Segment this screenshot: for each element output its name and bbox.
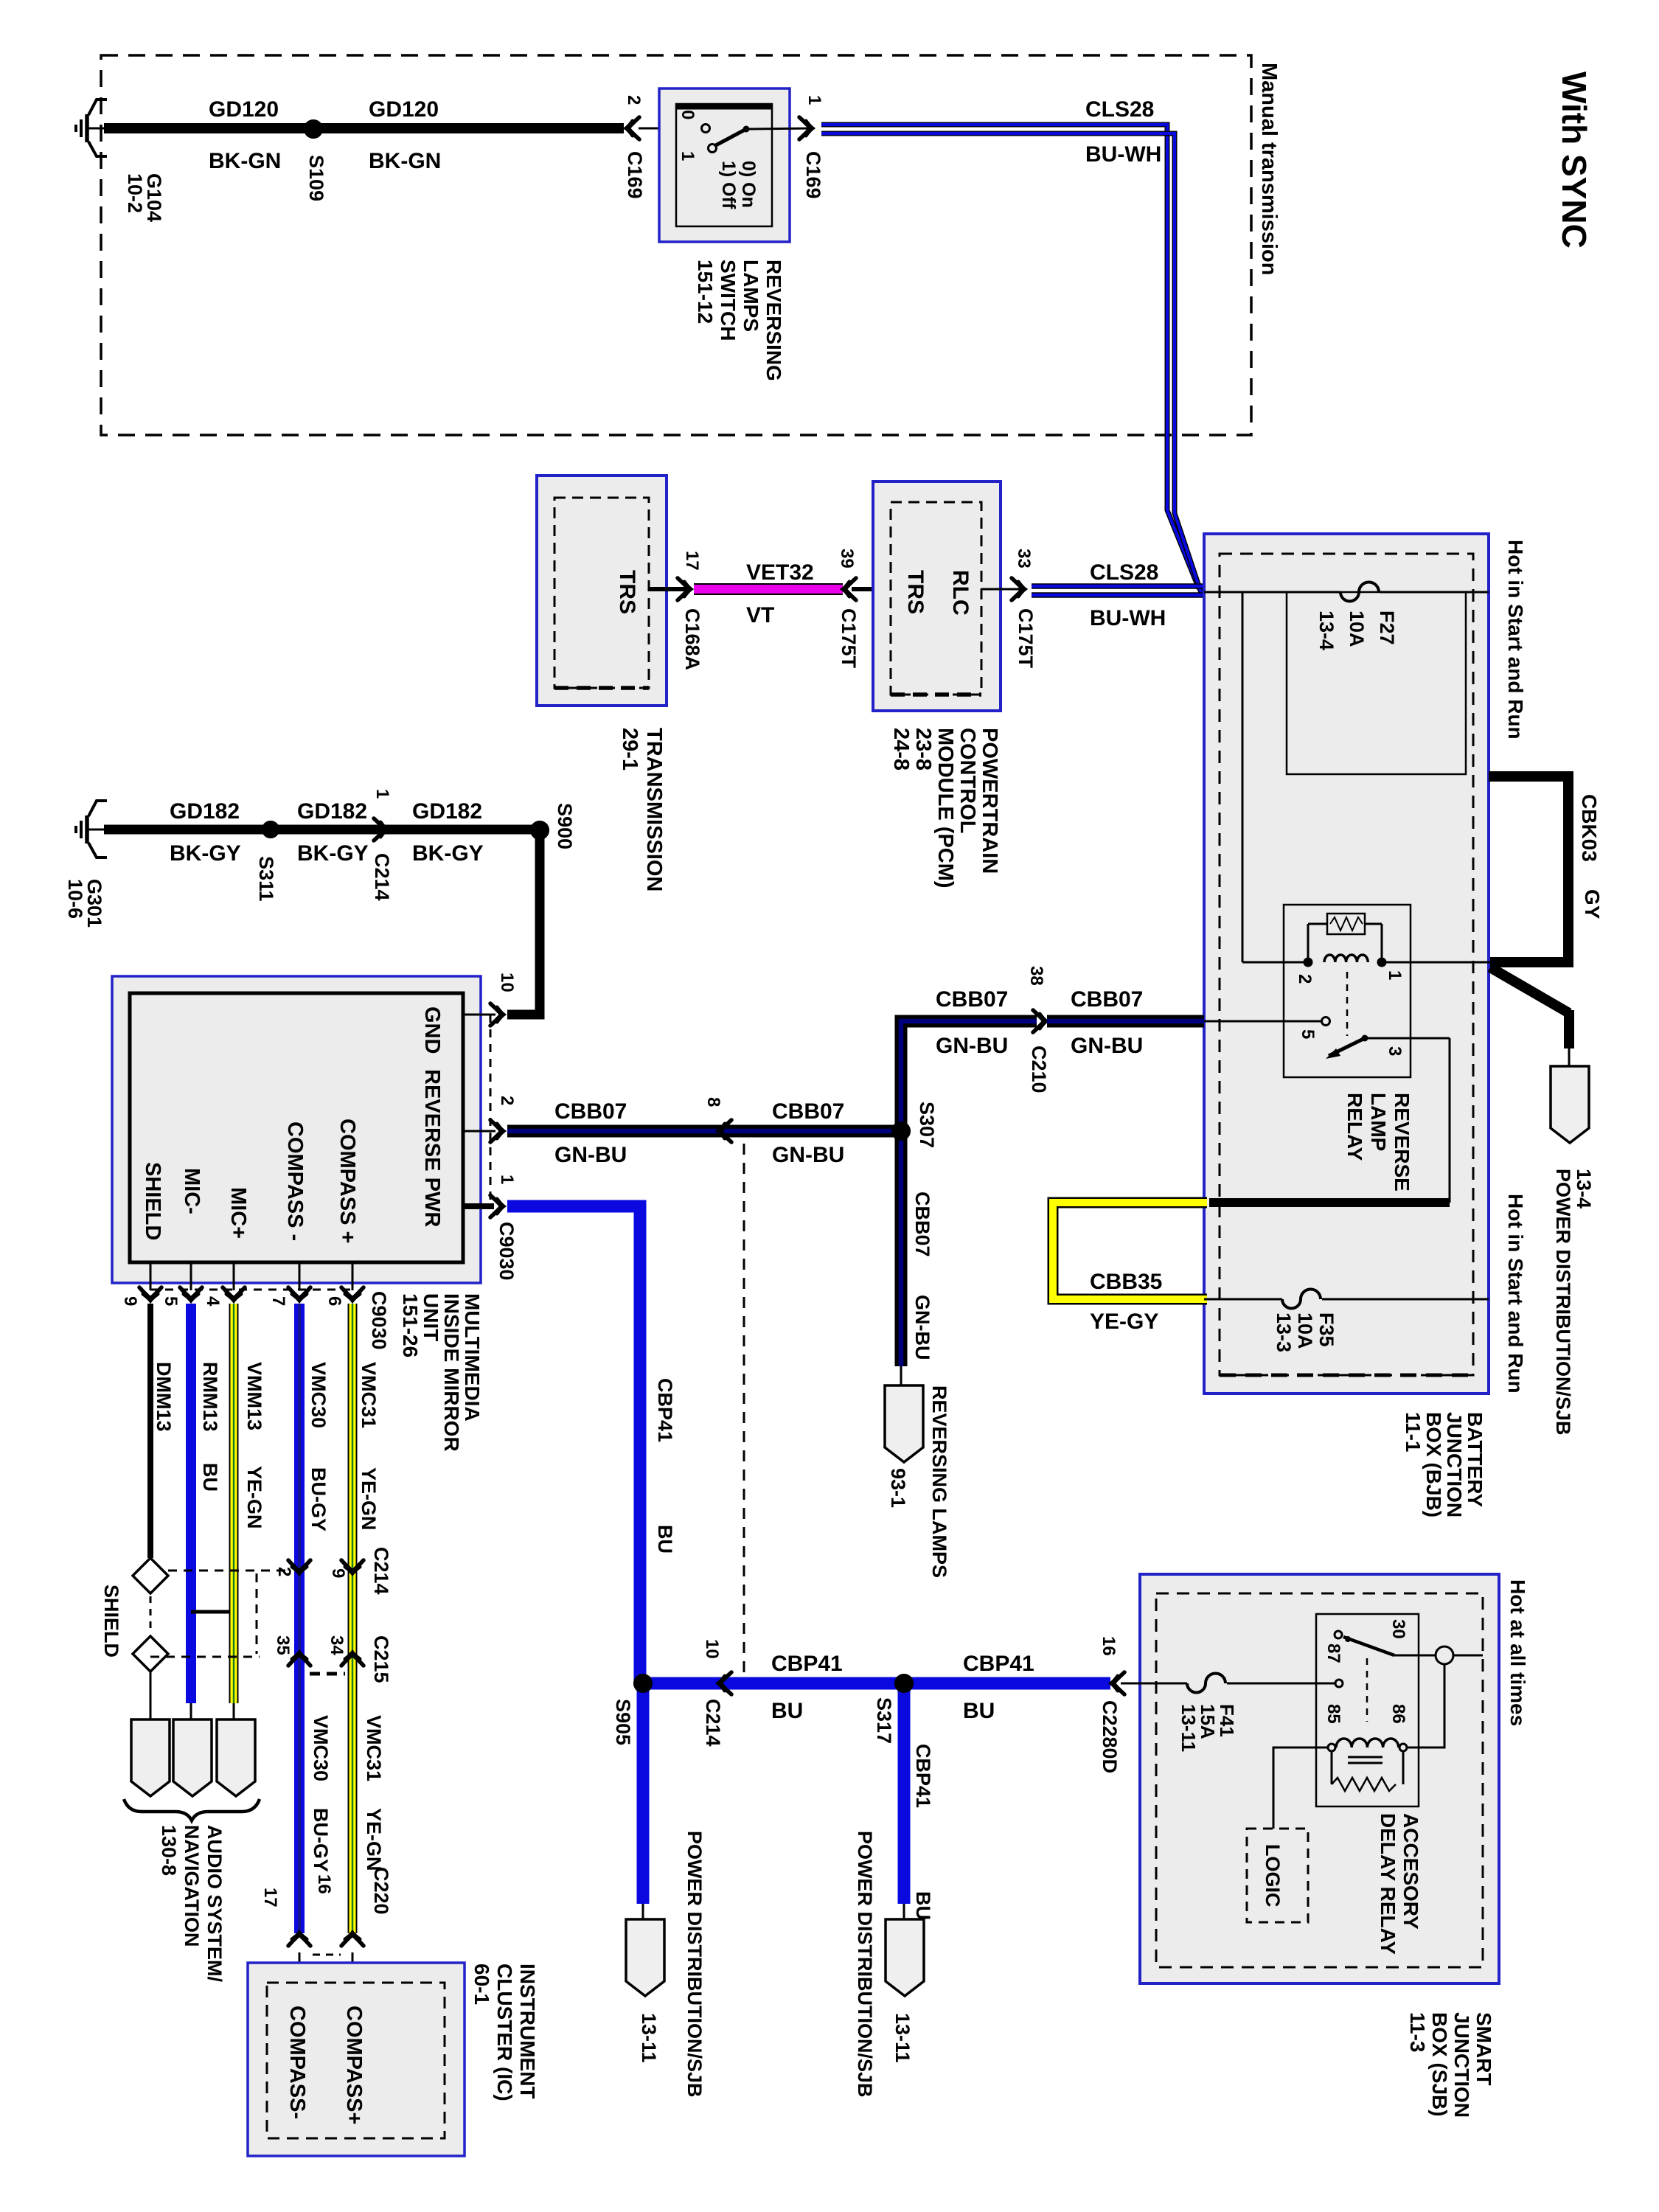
fuse F35 10A 13-3 xyxy=(1204,1298,1282,1301)
svg-text:CBB35: CBB35 xyxy=(1090,1270,1162,1294)
wire GD120 BK-GN xyxy=(104,123,624,133)
svg-text:COMPASS +: COMPASS + xyxy=(335,1119,359,1243)
dashed connector line C9030 bottom xyxy=(150,1289,352,1291)
pin 34 C215 xyxy=(341,1652,364,1666)
splice dot overlay S307 xyxy=(891,1121,911,1141)
relay actuator dashed (SJB) xyxy=(1366,1658,1368,1722)
reversing lamps switch box xyxy=(659,88,790,242)
svg-text:35: 35 xyxy=(273,1635,293,1655)
svg-text:CBB07: CBB07 xyxy=(554,1099,627,1124)
powertrain control module box xyxy=(873,481,1001,711)
wire into switch xyxy=(639,128,701,130)
wire TRS pin 17 xyxy=(649,587,686,591)
wire VET32 VT xyxy=(694,583,843,595)
wire VMC31 YE-GN (upper) xyxy=(348,1304,358,1933)
svg-text:S900: S900 xyxy=(554,803,576,849)
svg-text:BU-WH: BU-WH xyxy=(1085,142,1161,167)
dashed shield wire xyxy=(150,1596,152,1633)
twisted pair tie bar xyxy=(191,1610,234,1614)
svg-text:COMPASS+: COMPASS+ xyxy=(342,2006,366,2124)
svg-text:S307: S307 xyxy=(916,1102,938,1148)
splice dot overlay S317 xyxy=(894,1674,914,1693)
pin 1 C9030 xyxy=(463,1203,494,1209)
svg-text:VMC30: VMC30 xyxy=(307,1362,330,1428)
shield diamond 2 xyxy=(133,1636,168,1672)
svg-text:13-4: 13-4 xyxy=(1573,1169,1595,1208)
fuse F27 10A 13-4 xyxy=(1204,591,1340,594)
svg-text:10-6: 10-6 xyxy=(64,879,86,919)
wire pin3 to CBB35 xyxy=(1365,1037,1450,1040)
svg-text:10: 10 xyxy=(497,973,517,992)
switch contact 0 xyxy=(702,125,710,133)
splice S109 xyxy=(304,119,323,139)
svg-text:GD120: GD120 xyxy=(369,97,439,122)
wire shield to connector xyxy=(150,1672,152,1719)
pin 38 C210 xyxy=(1033,1010,1046,1032)
svg-text:38: 38 xyxy=(1026,966,1046,986)
svg-text:BOX (BJB): BOX (BJB) xyxy=(1422,1412,1445,1517)
svg-text:LAMPS: LAMPS xyxy=(740,260,762,332)
svg-text:0) On: 0) On xyxy=(738,161,759,208)
svg-text:13-11: 13-11 xyxy=(638,2013,660,2063)
svg-text:10: 10 xyxy=(702,1639,722,1659)
svg-text:C168A: C168A xyxy=(681,608,703,670)
wire ring to dashed edge xyxy=(1453,1655,1483,1657)
svg-text:BK-GN: BK-GN xyxy=(369,149,441,173)
svg-text:CBP41: CBP41 xyxy=(912,1744,934,1808)
svg-text:GY: GY xyxy=(1581,889,1604,919)
wire CBP41 BU (mirror pin1 down) xyxy=(507,1206,640,1683)
svg-text:GN-BU: GN-BU xyxy=(936,1034,1008,1058)
svg-text:85: 85 xyxy=(1324,1704,1343,1724)
svg-text:4: 4 xyxy=(203,1296,223,1307)
wire CBB07 S307 down to reversing lamps xyxy=(895,1131,908,1366)
svg-text:1: 1 xyxy=(1385,970,1405,980)
svg-text:9: 9 xyxy=(328,1568,348,1578)
manual transmission dashed box xyxy=(101,55,1251,435)
wire DMM13 shield xyxy=(147,1304,153,1558)
svg-text:BU: BU xyxy=(771,1699,803,1723)
pin 1 C214 xyxy=(374,818,387,841)
splice dot overlay S900 xyxy=(530,821,549,840)
reversing lamps arrow connector xyxy=(885,1385,923,1462)
instrument cluster box xyxy=(248,1963,465,2156)
relay coil xyxy=(1324,955,1368,962)
svg-text:GND: GND xyxy=(420,1006,444,1054)
svg-text:BK-GN: BK-GN xyxy=(209,149,281,173)
ground G104 xyxy=(85,114,89,142)
connector C214 row dashed xyxy=(168,1570,288,1572)
svg-text:BU: BU xyxy=(963,1699,995,1723)
reverse lamp relay outline xyxy=(1284,905,1411,1077)
svg-text:F27: F27 xyxy=(1376,611,1398,645)
svg-text:1: 1 xyxy=(678,151,698,161)
svg-text:2: 2 xyxy=(1295,974,1315,984)
svg-text:VMC31: VMC31 xyxy=(358,1362,380,1428)
svg-text:POWER DISTRIBUTION/SJB: POWER DISTRIBUTION/SJB xyxy=(854,1831,876,2098)
svg-text:C214: C214 xyxy=(371,853,393,901)
svg-text:86: 86 xyxy=(1388,1704,1408,1724)
wire CBB07 GN-BU (mirror pin2 to S307) xyxy=(507,1125,901,1138)
pin 17 C220 xyxy=(288,1933,310,1946)
svg-text:VMC30: VMC30 xyxy=(310,1715,332,1781)
svg-text:6: 6 xyxy=(324,1296,344,1306)
svg-text:GN-BU: GN-BU xyxy=(554,1143,627,1167)
svg-text:LAMP: LAMP xyxy=(1367,1093,1390,1151)
fuse cell rectangle xyxy=(1287,592,1466,774)
svg-text:YE-GN: YE-GN xyxy=(363,1808,385,1871)
svg-text:BU: BU xyxy=(912,1891,934,1920)
svg-text:BATTERY: BATTERY xyxy=(1464,1412,1486,1507)
svg-text:CBK03: CBK03 xyxy=(1578,794,1601,862)
pin 2 C169 xyxy=(626,117,639,139)
svg-text:VET32: VET32 xyxy=(746,560,814,585)
svg-text:VMC31: VMC31 xyxy=(363,1715,385,1781)
svg-text:MULTIMEDIA: MULTIMEDIA xyxy=(461,1293,484,1422)
svg-text:LOGIC: LOGIC xyxy=(1262,1844,1284,1907)
fuse F41 15A 13-11 xyxy=(1187,1674,1225,1693)
logic box xyxy=(1247,1829,1308,1922)
wire CBB07 C210 to BJB xyxy=(1047,1015,1204,1028)
svg-text:23-8: 23-8 xyxy=(911,728,935,771)
svg-text:7: 7 xyxy=(268,1296,288,1306)
svg-text:RELAY: RELAY xyxy=(1343,1093,1366,1161)
dashed connector line C214 long xyxy=(743,1144,745,1677)
svg-text:130-8: 130-8 xyxy=(158,1825,180,1876)
transmission box xyxy=(537,476,667,706)
svg-text:CBB07: CBB07 xyxy=(772,1099,844,1124)
wire lever to pin1 xyxy=(746,128,813,129)
wire pin30 to ring xyxy=(1394,1655,1436,1657)
svg-text:C169: C169 xyxy=(624,151,646,199)
svg-text:5: 5 xyxy=(161,1296,181,1306)
connector C215 row dashed xyxy=(150,1656,260,1658)
ring terminal xyxy=(1436,1646,1453,1664)
svg-text:POWER DISTRIBUTION/SJB: POWER DISTRIBUTION/SJB xyxy=(1552,1169,1574,1436)
svg-text:C210: C210 xyxy=(1028,1046,1050,1093)
svg-text:CBB07: CBB07 xyxy=(1071,987,1143,1012)
splice S311 xyxy=(262,821,279,838)
svg-text:16: 16 xyxy=(314,1874,334,1894)
svg-text:11-3: 11-3 xyxy=(1406,2012,1429,2053)
wire VMC30 BU-GY (upper) xyxy=(294,1304,305,1933)
svg-text:DMM13: DMM13 xyxy=(153,1362,175,1432)
svg-text:GD182: GD182 xyxy=(412,799,482,824)
wire ring down to coil 86 xyxy=(1407,1664,1444,1747)
relay pin 30 pivot xyxy=(1335,1631,1342,1638)
wire CBB35 YE-GY loop xyxy=(1053,1203,1207,1299)
svg-text:C9030: C9030 xyxy=(368,1291,390,1350)
ground G301 xyxy=(85,815,89,844)
wire C2280D to F41 xyxy=(1121,1683,1187,1685)
wire coil pin2 to F27 feed xyxy=(1242,961,1308,964)
svg-text:BK-GY: BK-GY xyxy=(170,841,241,866)
svg-text:TRS: TRS xyxy=(903,570,928,614)
svg-text:13-4: 13-4 xyxy=(1315,611,1338,650)
svg-text:17: 17 xyxy=(260,1888,280,1907)
svg-text:YE-GY: YE-GY xyxy=(1090,1310,1158,1334)
svg-text:YE-GN: YE-GN xyxy=(243,1466,265,1529)
svg-text:30: 30 xyxy=(1388,1619,1408,1639)
svg-text:VT: VT xyxy=(746,603,774,627)
splice dot overlay S905 xyxy=(633,1674,653,1693)
svg-text:DELAY RELAY: DELAY RELAY xyxy=(1377,1813,1399,1955)
wire CLS28 BU-WH double xyxy=(821,125,1204,587)
svg-text:CBP41: CBP41 xyxy=(654,1378,676,1442)
svg-text:GD120: GD120 xyxy=(209,97,279,122)
pin 2 C214 xyxy=(288,1560,310,1573)
svg-text:93-1: 93-1 xyxy=(887,1468,909,1508)
relay suppression resistor xyxy=(1327,914,1365,934)
svg-text:5: 5 xyxy=(1298,1029,1318,1039)
svg-text:BK-GY: BK-GY xyxy=(297,841,369,866)
wire S900 to mirror pin 10 xyxy=(507,830,540,1015)
svg-text:17: 17 xyxy=(682,551,702,571)
wire CBP41 row (S905 to S317 to C2280D) xyxy=(643,1677,1110,1690)
splice S317 xyxy=(894,1674,914,1693)
svg-text:9: 9 xyxy=(120,1296,140,1306)
bottom pins C9030 xyxy=(150,1262,152,1290)
wires into instrument cluster xyxy=(299,1952,301,1983)
svg-text:60-1: 60-1 xyxy=(470,1964,493,2005)
svg-text:24-8: 24-8 xyxy=(889,728,913,771)
pin 35 C215 xyxy=(288,1652,310,1666)
svg-text:REVERSE PWR: REVERSE PWR xyxy=(420,1069,444,1227)
svg-text:JUNCTION: JUNCTION xyxy=(1443,1412,1466,1517)
inline connector 8 xyxy=(718,1120,731,1142)
svg-text:C169: C169 xyxy=(802,151,824,199)
svg-text:REVERSING: REVERSING xyxy=(762,260,785,381)
svg-text:CLS28: CLS28 xyxy=(1090,560,1158,585)
smart junction box (SJB) xyxy=(1140,1574,1499,1983)
svg-text:151-26: 151-26 xyxy=(399,1293,422,1357)
svg-text:BU: BU xyxy=(654,1525,676,1554)
svg-text:1: 1 xyxy=(372,789,392,799)
svg-text:BK-GY: BK-GY xyxy=(412,841,484,866)
svg-text:CLS28: CLS28 xyxy=(1085,97,1154,122)
svg-text:GD182: GD182 xyxy=(170,799,240,824)
splice S905 xyxy=(633,1674,653,1693)
svg-text:BU-GY: BU-GY xyxy=(307,1467,330,1531)
svg-text:10A: 10A xyxy=(1346,611,1368,647)
svg-text:S317: S317 xyxy=(873,1697,895,1744)
relay pin 87 contact xyxy=(1335,1680,1343,1687)
svg-text:C215: C215 xyxy=(370,1635,392,1683)
pin 33 C175T xyxy=(1012,578,1025,600)
svg-text:SHIELD: SHIELD xyxy=(100,1585,122,1658)
power distribution 13-4 arrow connector xyxy=(1551,1066,1589,1143)
svg-text:C9030: C9030 xyxy=(495,1222,518,1281)
svg-text:C220: C220 xyxy=(370,1867,392,1915)
svg-text:1: 1 xyxy=(804,95,824,105)
pin 39 C175T xyxy=(843,578,856,600)
svg-text:Manual transmission: Manual transmission xyxy=(1257,63,1281,275)
svg-text:REVERSING LAMPS: REVERSING LAMPS xyxy=(928,1385,950,1578)
pin 16 C2280D xyxy=(1111,1672,1124,1694)
wire pin5 to BJB edge xyxy=(1204,1020,1321,1023)
pin 17 C168A xyxy=(678,578,691,600)
svg-text:VMM13: VMM13 xyxy=(243,1362,265,1430)
svg-text:GD182: GD182 xyxy=(297,799,367,824)
pin 1 C169 xyxy=(799,117,813,139)
svg-text:CBP41: CBP41 xyxy=(771,1652,843,1676)
splice dot overlay S109 xyxy=(304,119,323,139)
svg-text:SMART: SMART xyxy=(1472,2012,1495,2086)
switch lever xyxy=(714,129,746,146)
svg-text:C175T: C175T xyxy=(838,608,860,669)
multimedia inside mirror unit box xyxy=(112,976,481,1283)
pin 9 C214 xyxy=(341,1560,364,1573)
svg-text:0: 0 xyxy=(678,110,698,119)
svg-text:S311: S311 xyxy=(255,856,277,902)
pin 10 C9030 xyxy=(463,1014,495,1016)
wire GD182 BK-GY xyxy=(104,825,535,835)
audio arrow connector VMM13 xyxy=(217,1719,255,1796)
wire CLS28 BU-WH (PCM to BJB) xyxy=(1032,583,1204,589)
relay coil (SJB) xyxy=(1336,1739,1399,1747)
svg-text:SHIELD: SHIELD xyxy=(141,1162,164,1240)
svg-text:RLC: RLC xyxy=(948,570,973,616)
audio brace xyxy=(124,1799,260,1820)
svg-text:POWERTRAIN: POWERTRAIN xyxy=(978,728,1001,874)
relay lever 30 xyxy=(1343,1637,1394,1655)
relay contact pin 5 xyxy=(1322,1018,1330,1026)
svg-text:8: 8 xyxy=(703,1097,723,1107)
svg-text:TRS: TRS xyxy=(615,570,639,614)
svg-text:SWITCH: SWITCH xyxy=(717,260,740,341)
svg-text:CBB07: CBB07 xyxy=(936,987,1008,1012)
svg-text:POWER DISTRIBUTION/SJB: POWER DISTRIBUTION/SJB xyxy=(684,1831,706,2098)
svg-text:34: 34 xyxy=(327,1635,347,1655)
svg-text:CBP41: CBP41 xyxy=(963,1652,1034,1676)
svg-text:1: 1 xyxy=(497,1175,517,1184)
wire CBK03 GY thick xyxy=(1489,776,1568,962)
svg-text:INSIDE MIRROR: INSIDE MIRROR xyxy=(440,1293,463,1452)
svg-text:2: 2 xyxy=(497,1096,517,1105)
wire S317 down CBP41 BU xyxy=(898,1683,911,1904)
splice S900 xyxy=(530,821,549,840)
accessory delay relay outline xyxy=(1316,1614,1419,1806)
wire PCM pin 33 xyxy=(981,588,1025,591)
svg-text:Hot in Start and Run: Hot in Start and Run xyxy=(1504,540,1527,740)
svg-text:2: 2 xyxy=(624,95,644,105)
power distribution arrow (S905) xyxy=(626,1919,664,1996)
svg-text:C175T: C175T xyxy=(1015,608,1037,669)
relay lever pin 3 xyxy=(1329,1038,1365,1056)
wire coil pin1 to CBK03 xyxy=(1382,961,1490,964)
pin 10 C214 inline xyxy=(718,1672,731,1694)
audio arrow connector RMM13 xyxy=(173,1719,212,1796)
wire coil 85 to logic xyxy=(1273,1747,1328,1829)
svg-text:F35: F35 xyxy=(1315,1312,1338,1347)
dashed connector line C9030 right xyxy=(490,1015,492,1206)
svg-text:1) Off: 1) Off xyxy=(718,161,739,209)
svg-text:CLUSTER (IC): CLUSTER (IC) xyxy=(493,1964,516,2101)
svg-text:CBB07: CBB07 xyxy=(911,1192,933,1257)
svg-text:COMPASS-: COMPASS- xyxy=(285,2006,309,2119)
svg-text:With SYNC: With SYNC xyxy=(1555,72,1593,248)
svg-text:RMM13: RMM13 xyxy=(199,1362,221,1432)
svg-text:33: 33 xyxy=(1014,549,1034,568)
svg-text:AUDIO SYSTEM/: AUDIO SYSTEM/ xyxy=(204,1825,226,1983)
relay capacitor bars xyxy=(1348,1756,1382,1759)
svg-text:NAVIGATION: NAVIGATION xyxy=(181,1825,203,1947)
svg-text:BOX (SJB): BOX (SJB) xyxy=(1428,2012,1451,2117)
svg-text:10A: 10A xyxy=(1294,1312,1316,1349)
svg-text:CONTROL: CONTROL xyxy=(956,728,979,833)
svg-text:87: 87 xyxy=(1324,1644,1343,1663)
splice dot overlay S311 xyxy=(262,821,279,838)
svg-text:151-12: 151-12 xyxy=(694,260,717,324)
svg-text:2: 2 xyxy=(274,1567,294,1576)
svg-text:39: 39 xyxy=(837,549,857,568)
svg-text:BU-WH: BU-WH xyxy=(1090,606,1166,630)
pin 2 C9030 xyxy=(463,1130,495,1133)
svg-text:S109: S109 xyxy=(305,155,327,201)
svg-text:13-11: 13-11 xyxy=(1178,1704,1200,1752)
svg-text:10-2: 10-2 xyxy=(124,173,146,213)
svg-text:11-1: 11-1 xyxy=(1402,1412,1425,1453)
svg-text:Hot in Start and Run: Hot in Start and Run xyxy=(1504,1194,1527,1394)
svg-text:3: 3 xyxy=(1385,1046,1405,1056)
wire RMM13 BU xyxy=(186,1304,196,1703)
svg-text:C214: C214 xyxy=(370,1547,392,1595)
wire VMM13 YE-GN xyxy=(229,1304,239,1703)
svg-text:S905: S905 xyxy=(612,1699,634,1745)
svg-text:REVERSE: REVERSE xyxy=(1391,1093,1413,1192)
splice S307 xyxy=(891,1121,911,1141)
svg-text:MIC+: MIC+ xyxy=(226,1187,250,1239)
svg-text:YE-GN: YE-GN xyxy=(358,1467,380,1531)
svg-text:JUNCTION: JUNCTION xyxy=(1450,2012,1473,2118)
relay actuator dashed line xyxy=(1346,972,1349,1036)
svg-text:GN-BU: GN-BU xyxy=(1071,1034,1143,1058)
svg-text:13-11: 13-11 xyxy=(891,2013,914,2063)
wire CBB07 S307 up to C210 xyxy=(901,1021,1037,1131)
power distribution arrow (S317) xyxy=(886,1919,924,1996)
wire into PCM xyxy=(852,587,891,591)
svg-text:COMPASS -: COMPASS - xyxy=(283,1121,307,1241)
svg-text:29-1: 29-1 xyxy=(618,728,641,771)
svg-text:INSTRUMENT: INSTRUMENT xyxy=(516,1964,539,2099)
pin 16 C220 xyxy=(341,1933,364,1946)
wire S905 down to power distribution xyxy=(637,1683,650,1904)
battery junction box (BJB) xyxy=(1204,534,1489,1394)
svg-text:BU: BU xyxy=(199,1463,221,1492)
svg-text:ACCESORY: ACCESORY xyxy=(1399,1813,1422,1930)
svg-text:UNIT: UNIT xyxy=(420,1293,442,1341)
svg-text:MODULE (PCM): MODULE (PCM) xyxy=(933,728,957,888)
shield diamond 1 xyxy=(133,1558,168,1593)
audio arrow connector shield xyxy=(131,1719,170,1796)
svg-text:C2280D: C2280D xyxy=(1099,1700,1121,1773)
svg-text:GN-BU: GN-BU xyxy=(911,1295,933,1360)
svg-text:MIC-: MIC- xyxy=(180,1168,204,1214)
wire F27 to relay coil (inner vertical) xyxy=(1242,592,1244,962)
svg-text:BU-GY: BU-GY xyxy=(310,1808,332,1872)
svg-text:16: 16 xyxy=(1099,1636,1119,1656)
svg-text:13-3: 13-3 xyxy=(1273,1312,1295,1352)
switch contact 1 xyxy=(709,145,717,153)
svg-text:C214: C214 xyxy=(702,1699,724,1747)
svg-text:Hot at all times: Hot at all times xyxy=(1506,1579,1529,1726)
svg-text:TRANSMISSION: TRANSMISSION xyxy=(642,728,666,891)
svg-text:GN-BU: GN-BU xyxy=(772,1143,844,1167)
relay resistor loop xyxy=(1331,1751,1333,1784)
